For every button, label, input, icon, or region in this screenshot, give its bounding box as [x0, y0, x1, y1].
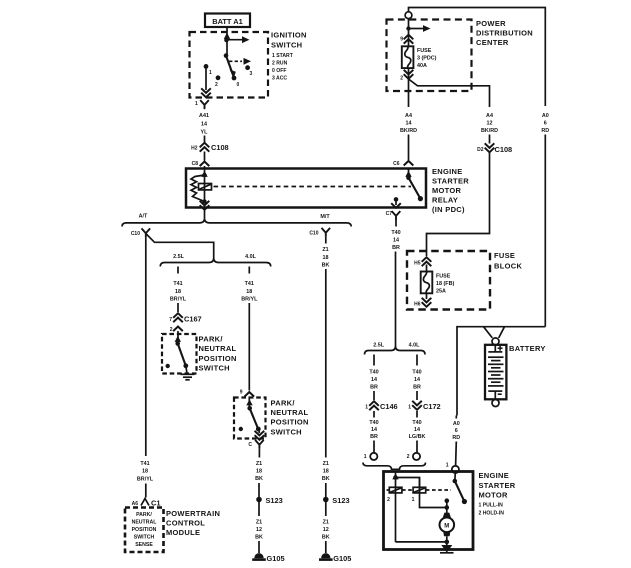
svg-text:2: 2 — [170, 327, 173, 333]
svg-text:POWERTRAIN: POWERTRAIN — [166, 509, 220, 518]
svg-text:Z1: Z1 — [256, 520, 262, 526]
svg-text:H6: H6 — [414, 302, 421, 308]
svg-text:25A: 25A — [436, 289, 446, 295]
svg-text:0: 0 — [237, 82, 240, 88]
svg-text:2 HOLD-IN: 2 HOLD-IN — [479, 511, 505, 517]
svg-text:0 OFF: 0 OFF — [272, 68, 286, 74]
svg-text:S123: S123 — [332, 496, 349, 505]
svg-text:SWITCH: SWITCH — [199, 364, 230, 373]
svg-text:18: 18 — [175, 289, 181, 295]
svg-text:BLOCK: BLOCK — [494, 261, 522, 270]
svg-text:A4: A4 — [486, 113, 493, 119]
svg-text:BK/RD: BK/RD — [481, 128, 498, 134]
svg-text:A4: A4 — [405, 113, 412, 119]
svg-text:1: 1 — [412, 497, 415, 503]
svg-text:H2: H2 — [191, 146, 198, 152]
svg-text:12: 12 — [256, 527, 262, 533]
svg-text:BR: BR — [392, 245, 400, 251]
svg-text:1: 1 — [195, 101, 198, 107]
svg-text:T40: T40 — [369, 370, 378, 376]
svg-text:Z1: Z1 — [322, 247, 328, 253]
svg-text:1 PULL-IN: 1 PULL-IN — [479, 503, 504, 509]
svg-text:2 RUN: 2 RUN — [272, 60, 288, 66]
svg-text:14: 14 — [414, 377, 420, 383]
svg-text:T40: T40 — [412, 420, 421, 426]
svg-text:4.0L: 4.0L — [245, 254, 256, 260]
svg-text:C8: C8 — [192, 161, 199, 167]
svg-text:A6: A6 — [132, 501, 139, 507]
svg-text:T41: T41 — [245, 281, 254, 287]
svg-text:CONTROL: CONTROL — [166, 519, 205, 528]
svg-text:40A: 40A — [417, 63, 427, 69]
svg-text:BK: BK — [322, 535, 330, 541]
svg-text:T40: T40 — [391, 230, 400, 236]
svg-text:S123: S123 — [266, 496, 283, 505]
svg-text:2.5L: 2.5L — [173, 254, 184, 260]
svg-text:1: 1 — [408, 405, 411, 411]
svg-text:1: 1 — [209, 70, 212, 76]
svg-text:RELAY: RELAY — [432, 196, 458, 205]
svg-text:6: 6 — [544, 121, 547, 127]
svg-text:14: 14 — [406, 121, 412, 127]
svg-text:18: 18 — [142, 469, 148, 475]
svg-text:C172: C172 — [423, 402, 441, 411]
svg-text:T40: T40 — [369, 420, 378, 426]
svg-text:BR/YL: BR/YL — [170, 297, 187, 303]
svg-text:NEUTRAL: NEUTRAL — [199, 344, 237, 353]
svg-text:BR: BR — [413, 385, 421, 391]
svg-text:1: 1 — [364, 454, 367, 460]
svg-text:STARTER: STARTER — [432, 177, 469, 186]
svg-text:M: M — [444, 523, 449, 529]
svg-text:BK: BK — [255, 476, 263, 482]
svg-text:18: 18 — [323, 255, 329, 261]
svg-text:C146: C146 — [380, 402, 398, 411]
svg-text:BATT A1: BATT A1 — [212, 17, 242, 26]
svg-text:BK/RD: BK/RD — [400, 128, 417, 134]
svg-text:14: 14 — [393, 238, 399, 244]
svg-text:SWITCH: SWITCH — [271, 41, 302, 50]
svg-text:MOTOR: MOTOR — [479, 491, 509, 500]
svg-text:C10: C10 — [309, 231, 318, 237]
svg-text:RD: RD — [452, 435, 460, 441]
svg-text:1 START: 1 START — [272, 53, 294, 59]
svg-text:FUSE: FUSE — [436, 274, 451, 280]
svg-text:POWER: POWER — [476, 19, 506, 28]
svg-text:PARK/: PARK/ — [271, 399, 296, 408]
svg-text:RD: RD — [541, 128, 549, 134]
svg-text:14: 14 — [201, 122, 207, 128]
svg-text:T40: T40 — [412, 370, 421, 376]
svg-text:NEUTRAL: NEUTRAL — [271, 408, 309, 417]
svg-text:1: 1 — [446, 463, 449, 469]
svg-text:BR: BR — [370, 385, 378, 391]
svg-text:2: 2 — [215, 82, 218, 88]
svg-text:Z1: Z1 — [323, 461, 329, 467]
svg-text:C108: C108 — [211, 143, 229, 152]
svg-text:ENGINE: ENGINE — [432, 167, 463, 176]
svg-text:T41: T41 — [173, 281, 182, 287]
svg-text:9: 9 — [240, 390, 243, 396]
svg-text:14: 14 — [371, 427, 377, 433]
svg-text:DISTRIBUTION: DISTRIBUTION — [476, 28, 533, 37]
svg-text:SWITCH: SWITCH — [271, 427, 302, 436]
svg-text:1: 1 — [365, 405, 368, 411]
svg-text:4.0L: 4.0L — [409, 343, 420, 349]
svg-text:G105: G105 — [333, 554, 351, 563]
svg-text:SWITCH: SWITCH — [134, 535, 155, 541]
svg-text:12: 12 — [323, 527, 329, 533]
svg-text:3: 3 — [250, 71, 253, 77]
svg-text:G105: G105 — [267, 554, 285, 563]
svg-text:18: 18 — [323, 469, 329, 475]
svg-text:3 ACC: 3 ACC — [272, 75, 287, 81]
svg-text:ENGINE: ENGINE — [479, 471, 510, 480]
svg-text:POSITION: POSITION — [271, 418, 309, 427]
svg-text:STARTER: STARTER — [479, 481, 516, 490]
svg-text:BR/YL: BR/YL — [137, 477, 154, 483]
svg-text:C: C — [248, 442, 252, 448]
svg-text:IGNITION: IGNITION — [271, 31, 307, 40]
svg-text:LG/BK: LG/BK — [409, 434, 426, 440]
svg-text:(IN PDC): (IN PDC) — [432, 205, 465, 214]
svg-text:C10: C10 — [131, 231, 140, 237]
svg-text:FUSE: FUSE — [417, 48, 432, 54]
svg-text:Z1: Z1 — [323, 520, 329, 526]
svg-text:BATTERY: BATTERY — [509, 344, 546, 353]
svg-text:A/T: A/T — [139, 214, 148, 220]
svg-text:A41: A41 — [199, 113, 209, 119]
svg-text:H5: H5 — [414, 261, 421, 267]
svg-text:BK: BK — [322, 476, 330, 482]
svg-text:BK: BK — [322, 263, 330, 269]
svg-text:9: 9 — [400, 37, 403, 43]
svg-text:PARK/: PARK/ — [136, 512, 152, 518]
svg-text:7: 7 — [169, 317, 172, 323]
svg-text:NEUTRAL: NEUTRAL — [132, 520, 158, 526]
svg-text:PARK/: PARK/ — [199, 335, 224, 344]
svg-text:BK: BK — [255, 535, 263, 541]
svg-text:FUSE: FUSE — [494, 251, 515, 260]
svg-text:12: 12 — [487, 121, 493, 127]
svg-text:A0: A0 — [542, 113, 549, 119]
svg-text:2.5L: 2.5L — [373, 343, 384, 349]
svg-text:M/T: M/T — [320, 214, 330, 220]
svg-text:14: 14 — [371, 377, 377, 383]
svg-text:D2: D2 — [477, 147, 484, 153]
svg-text:SENSE: SENSE — [135, 542, 153, 548]
svg-text:C108: C108 — [495, 145, 513, 154]
svg-text:MODULE: MODULE — [166, 528, 200, 537]
svg-text:A0: A0 — [453, 421, 460, 427]
svg-text:POSITION: POSITION — [132, 527, 157, 533]
svg-text:T41: T41 — [140, 461, 149, 467]
svg-text:POSITION: POSITION — [199, 354, 237, 363]
svg-text:6: 6 — [455, 428, 458, 434]
svg-text:18: 18 — [256, 469, 262, 475]
svg-text:2: 2 — [407, 454, 410, 460]
svg-text:C167: C167 — [184, 315, 202, 324]
svg-text:Z1: Z1 — [256, 461, 262, 467]
svg-text:C6: C6 — [393, 161, 400, 167]
svg-text:CENTER: CENTER — [476, 38, 509, 47]
svg-text:2: 2 — [387, 497, 390, 503]
svg-text:C1: C1 — [151, 499, 160, 508]
svg-text:18: 18 — [246, 289, 252, 295]
svg-text:MOTOR: MOTOR — [432, 186, 462, 195]
svg-text:3 (PDC): 3 (PDC) — [417, 56, 437, 62]
svg-text:18 (FB): 18 (FB) — [436, 281, 454, 287]
svg-text:BR: BR — [370, 434, 378, 440]
svg-text:YL: YL — [201, 130, 209, 136]
svg-text:BR/YL: BR/YL — [241, 297, 258, 303]
svg-text:14: 14 — [414, 427, 420, 433]
svg-text:2: 2 — [400, 76, 403, 82]
